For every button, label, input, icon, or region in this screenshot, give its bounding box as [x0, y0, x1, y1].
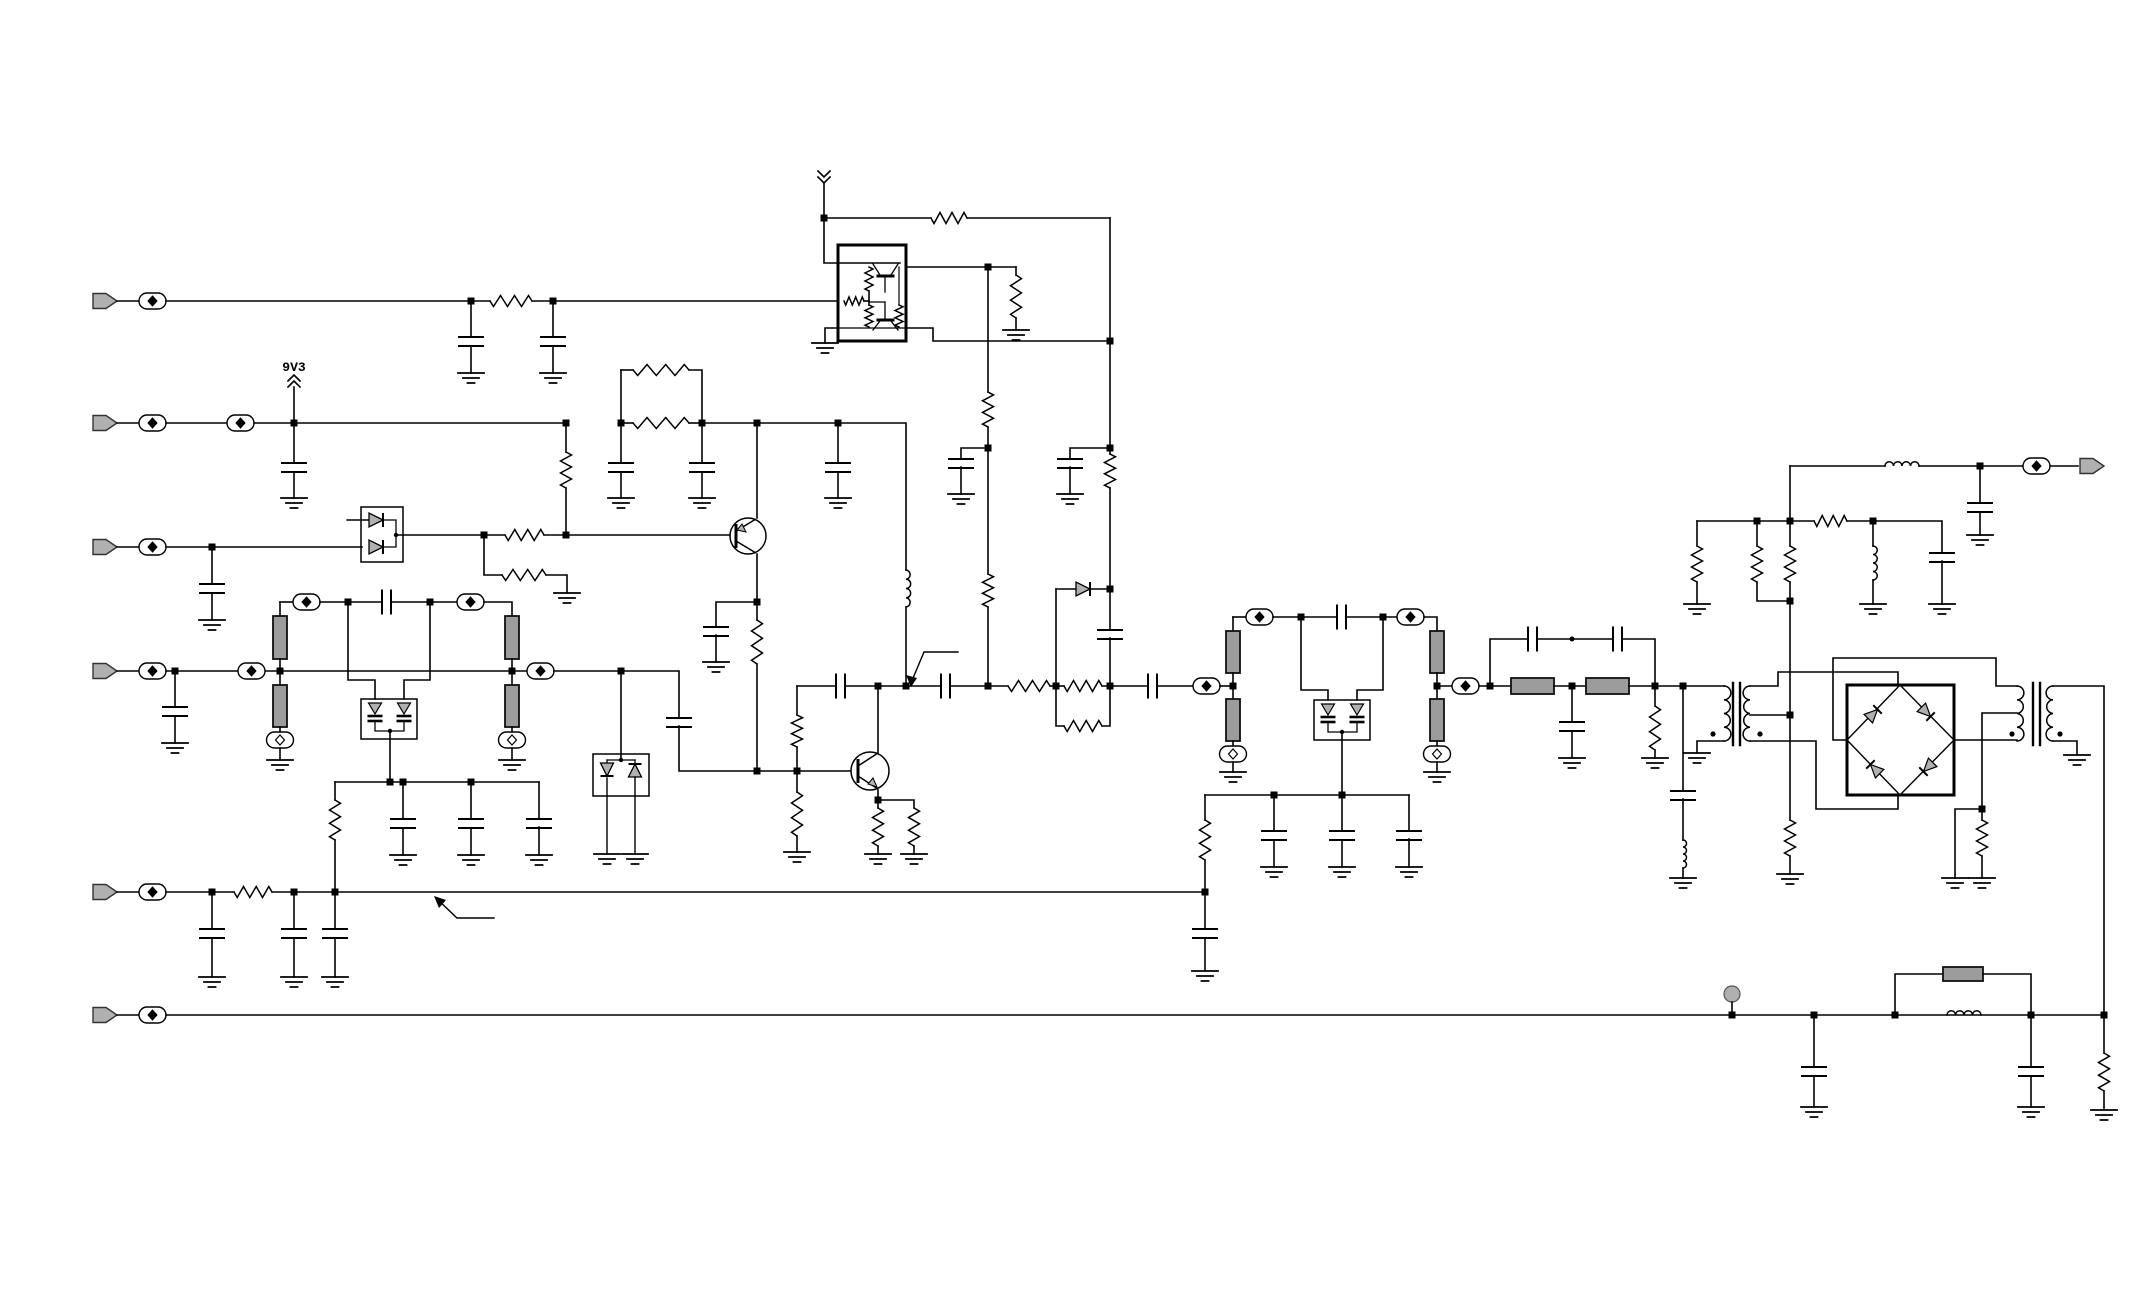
ferrite bead FB13 — [1246, 609, 1273, 625]
wire — [845, 685, 878, 687]
wire — [565, 423, 567, 452]
wire — [987, 448, 989, 574]
wire — [470, 782, 472, 819]
resistor R36 — [1692, 546, 1703, 582]
wire — [620, 671, 622, 760]
ground — [526, 855, 552, 865]
ferrite bead FB14 — [1397, 609, 1424, 625]
capacitor C36 — [2019, 1067, 2043, 1076]
wire — [1424, 617, 1437, 631]
resistor R11 — [561, 452, 572, 488]
wire — [756, 423, 758, 518]
wire — [293, 892, 295, 929]
resistor R29 — [1200, 820, 1211, 860]
wire — [1697, 520, 1814, 522]
wire — [715, 635, 717, 662]
wire — [1408, 795, 1410, 831]
junction — [1434, 683, 1441, 690]
wire — [1341, 732, 1343, 795]
junction — [277, 668, 284, 675]
wire — [552, 301, 554, 337]
wire — [689, 370, 702, 423]
wire — [1872, 580, 1874, 604]
ground — [689, 498, 715, 508]
junction — [821, 215, 828, 222]
capacitor C9 — [826, 463, 850, 472]
wire — [211, 547, 213, 584]
wire — [334, 938, 336, 977]
resistor R32 — [1650, 706, 1661, 750]
wire — [166, 670, 280, 672]
wire — [702, 423, 906, 570]
wire — [1436, 741, 1438, 747]
transistor U1 internal Q bottom — [878, 319, 893, 322]
wire — [484, 534, 505, 536]
capacitor C17 — [667, 718, 691, 727]
wire — [1622, 639, 1655, 686]
wire — [272, 891, 1205, 893]
connector J6 — [93, 1008, 117, 1023]
resistor R34 — [1785, 820, 1796, 856]
wire — [2053, 686, 2104, 1015]
wire — [470, 346, 472, 373]
wire — [1872, 521, 1874, 546]
wire — [280, 670, 512, 672]
diode D1 — [1076, 582, 1090, 596]
resistor R38 — [1977, 820, 1988, 856]
wire — [1789, 856, 1791, 874]
wire — [565, 488, 567, 535]
wire — [1789, 582, 1791, 601]
wire — [1109, 341, 1111, 448]
wire — [607, 759, 635, 761]
wire — [987, 267, 989, 392]
resistor R23 — [1064, 681, 1102, 692]
wire — [756, 602, 758, 620]
varactor D6 — [1321, 704, 1336, 722]
wire — [823, 183, 825, 218]
wire — [1273, 840, 1275, 867]
wire — [348, 602, 375, 699]
junction — [1754, 518, 1761, 525]
junction — [1652, 683, 1659, 690]
capacitor C14 — [459, 819, 483, 828]
wire — [484, 602, 512, 616]
annotation arrow 2 — [437, 899, 494, 918]
wire — [620, 423, 622, 463]
wire — [1813, 1076, 1815, 1107]
wire — [877, 686, 879, 753]
ground — [784, 852, 810, 862]
transformer T1 primary — [1724, 686, 1731, 741]
wire — [621, 369, 633, 371]
wire — [404, 602, 430, 699]
wire — [960, 467, 962, 494]
ground — [1777, 874, 1803, 884]
junction — [618, 668, 625, 675]
ground — [390, 855, 416, 865]
resistor R41 — [2099, 1053, 2110, 1091]
wire — [1895, 974, 1943, 1015]
junction — [1977, 463, 1984, 470]
wire — [906, 266, 1016, 268]
wire — [347, 519, 369, 521]
wire — [701, 423, 703, 463]
junction — [754, 420, 761, 427]
wire — [1731, 1002, 1733, 1015]
junction — [1230, 683, 1237, 690]
ferrite bead FB8 (hollow) — [499, 732, 526, 748]
wire — [552, 346, 554, 373]
wire — [840, 327, 904, 329]
wire — [2053, 741, 2077, 755]
transformer T2 primary — [2017, 686, 2024, 741]
wire — [796, 836, 798, 852]
wire — [877, 846, 879, 854]
wire — [824, 218, 838, 263]
junction — [1569, 683, 1576, 690]
resistor R40 (smd) — [1943, 967, 1983, 981]
ferrite bead FB2 — [139, 415, 166, 431]
junction — [1680, 683, 1687, 690]
wire — [280, 601, 293, 603]
inductor L4 — [1885, 462, 1919, 466]
capacitor C28 — [1671, 791, 1695, 800]
wire — [1204, 860, 1206, 891]
diode ring diamond — [1847, 685, 1954, 795]
wire — [634, 777, 636, 854]
wire — [538, 782, 540, 819]
wire — [117, 1014, 139, 1016]
wire — [334, 840, 336, 892]
wire — [1750, 672, 1898, 686]
wire — [254, 422, 566, 424]
wire — [1982, 713, 2017, 809]
ferrite bead FB6 — [457, 594, 484, 610]
annotation arrow — [911, 652, 958, 683]
wire — [211, 593, 213, 620]
wire — [1537, 638, 1613, 640]
capacitor C2 — [541, 337, 565, 346]
diode U2b — [369, 540, 383, 554]
ferrite bead FB4 — [139, 539, 166, 555]
junction — [875, 683, 882, 690]
wire — [389, 731, 391, 782]
wire — [1919, 465, 2078, 467]
ferrite bead FB9 — [139, 663, 166, 679]
wire — [1981, 809, 1983, 820]
diode D5 — [629, 764, 642, 777]
ferrite bead FB1 — [139, 293, 166, 309]
junction — [1107, 683, 1114, 690]
resistor R26 (smd) — [1226, 699, 1240, 741]
capacitor C32 — [282, 929, 306, 938]
power 9V3 arrow — [288, 375, 300, 387]
resistor R39 — [234, 887, 272, 898]
wire — [166, 546, 362, 548]
ground — [1684, 604, 1710, 614]
ferrite bead FB7 (hollow) — [267, 732, 294, 748]
resistor R4 — [1105, 454, 1116, 488]
ground — [1967, 535, 1993, 545]
ground — [1192, 971, 1218, 981]
junction — [985, 264, 992, 271]
ferrite bead FB18 — [2023, 458, 2050, 474]
junction — [1487, 683, 1494, 690]
wire — [1954, 739, 2017, 741]
junction — [468, 298, 475, 305]
inductor L1 — [906, 570, 911, 607]
power arrow (down chevrons) — [818, 171, 830, 183]
junction — [1271, 792, 1278, 799]
wire — [877, 800, 879, 808]
wire — [546, 575, 567, 593]
junction — [481, 532, 488, 539]
wire — [634, 760, 636, 764]
wire — [293, 387, 295, 423]
wire — [1301, 617, 1328, 700]
via (gray dot) — [1724, 986, 1740, 1002]
junction — [1202, 889, 1209, 896]
wire — [1273, 795, 1275, 831]
ground — [554, 593, 580, 603]
wire — [905, 607, 907, 686]
junction — [1380, 614, 1387, 621]
junction — [1787, 712, 1794, 719]
ground — [622, 854, 648, 864]
wire — [869, 301, 885, 303]
resistor R17 — [330, 800, 341, 840]
wire — [2103, 1091, 2105, 1110]
wire — [878, 685, 941, 687]
junction — [754, 599, 761, 606]
junction — [985, 683, 992, 690]
ground — [2018, 1107, 2044, 1117]
resistor R30 (smd) — [1511, 678, 1554, 694]
ground — [199, 620, 225, 630]
wire — [293, 423, 295, 463]
wire — [1346, 616, 1410, 618]
capacitor C20 — [1148, 675, 1157, 698]
resistor R12 — [752, 620, 763, 664]
capacitor C8 — [690, 463, 714, 472]
connector J5 — [93, 885, 117, 900]
phase dot — [1757, 731, 1762, 736]
wire — [1050, 685, 1064, 687]
inductor L5 — [1947, 1011, 1981, 1015]
resistor U1 internal R3 — [865, 305, 873, 327]
wire — [511, 659, 513, 685]
junction — [332, 889, 339, 896]
wire — [391, 601, 457, 603]
diode D9 ring BL — [1866, 760, 1884, 778]
node varactor join — [388, 729, 392, 733]
wire — [1070, 448, 1110, 459]
ferrite bead FB11 — [527, 663, 554, 679]
ground — [1969, 878, 1995, 888]
junction — [468, 779, 475, 786]
wire — [987, 427, 989, 448]
capacitor C22 — [1262, 831, 1286, 840]
wire — [1015, 267, 1017, 275]
wire — [211, 938, 213, 977]
ground — [1801, 1107, 1827, 1117]
wire — [174, 671, 176, 707]
phase dot — [2057, 731, 2062, 736]
node bypass — [1570, 637, 1575, 642]
wire — [716, 602, 757, 627]
wire — [511, 748, 513, 760]
wire — [796, 771, 798, 792]
wire — [1696, 521, 1698, 546]
wire — [1757, 582, 1790, 601]
wire — [1789, 466, 1791, 521]
wire — [1789, 601, 1791, 715]
resistor R22 — [1008, 681, 1050, 692]
capacitor C6 — [282, 463, 306, 472]
junction — [903, 683, 910, 690]
ferrite bead FB15 (hollow) — [1220, 746, 1247, 762]
resistor U1 internal R — [865, 267, 873, 291]
wire — [1790, 465, 1885, 467]
junction — [1107, 586, 1114, 593]
wire — [877, 790, 879, 800]
wire — [987, 607, 989, 686]
resistor R1 — [490, 296, 532, 307]
resistor R5 — [983, 392, 994, 427]
wire — [1109, 589, 1111, 630]
wire — [606, 778, 608, 854]
wire — [1436, 762, 1438, 772]
wire — [2030, 1076, 2032, 1107]
junction — [1811, 1012, 1818, 1019]
wire — [825, 328, 838, 343]
wire — [1981, 856, 1983, 878]
ground — [1942, 878, 1968, 888]
capacitor C3 — [1058, 459, 1082, 468]
varactor box U3 — [361, 699, 417, 739]
ferrite bead FB17 — [1452, 678, 1479, 694]
junction — [400, 779, 407, 786]
wire — [1682, 799, 1684, 840]
resistor R9 — [505, 530, 544, 541]
junction — [563, 532, 570, 539]
wire — [1683, 685, 1724, 687]
wire — [837, 472, 839, 498]
capacitor C7 — [609, 463, 633, 472]
transformer T1 secondary — [1743, 686, 1750, 741]
transformer T2 secondary — [2046, 686, 2053, 741]
junction — [835, 420, 842, 427]
capacitor C24 — [1397, 831, 1421, 840]
junction — [1107, 338, 1114, 345]
wire — [1204, 938, 1206, 971]
wire — [511, 727, 513, 732]
capacitor C25 — [1528, 628, 1537, 651]
wire — [1955, 809, 1982, 878]
ferrite bead FB10 — [238, 663, 265, 679]
IC U1 — [838, 245, 906, 341]
resistor U1 internal R4 — [895, 305, 903, 327]
diode D8 ring BR — [1919, 758, 1937, 776]
resistor U1 internal R2 — [844, 297, 864, 305]
capacitor C23 — [1330, 831, 1354, 840]
ground — [2064, 755, 2090, 765]
capacitor C11 — [704, 627, 728, 636]
wire — [117, 891, 139, 893]
wire — [1109, 218, 1111, 341]
wire — [1750, 741, 1898, 809]
wire — [824, 217, 931, 219]
junction — [985, 445, 992, 452]
wire — [961, 448, 988, 459]
junction — [1339, 792, 1346, 799]
resistor R33 — [1785, 546, 1796, 582]
wire — [757, 770, 852, 772]
wire — [1056, 588, 1076, 590]
wire — [293, 472, 295, 498]
connector J3 — [93, 540, 117, 555]
wire — [166, 422, 227, 424]
junction — [699, 420, 706, 427]
wire — [1654, 686, 1656, 706]
capacitor C12 — [382, 591, 391, 614]
ground — [825, 498, 851, 508]
capacitor C18 — [836, 675, 845, 698]
wire — [1204, 795, 1206, 820]
wire — [166, 300, 471, 302]
wire — [279, 659, 281, 685]
transistor U1 internal Q top — [878, 275, 893, 278]
wire — [117, 546, 139, 548]
junction — [291, 420, 298, 427]
wire — [1682, 686, 1684, 791]
wire — [1437, 685, 1452, 687]
junction — [550, 298, 557, 305]
wire — [471, 300, 490, 302]
wire — [566, 534, 730, 536]
wire — [864, 300, 869, 302]
wire — [1205, 794, 1409, 796]
ground — [1929, 604, 1955, 614]
junction — [1729, 1012, 1736, 1019]
wire — [1232, 617, 1234, 631]
junction — [509, 668, 516, 675]
wire — [335, 781, 539, 783]
wire — [334, 892, 336, 929]
ground — [162, 743, 188, 753]
resistor R14 (smd) — [273, 685, 287, 727]
wire — [1109, 488, 1111, 589]
wire — [279, 602, 281, 616]
wire — [756, 554, 758, 602]
ground — [1642, 758, 1668, 768]
resistor R21 — [909, 808, 920, 846]
wire — [1833, 658, 2017, 740]
wire — [166, 1014, 2104, 1016]
ground — [703, 662, 729, 672]
wire — [1056, 686, 1064, 726]
wire — [1813, 1015, 1815, 1067]
ground — [1670, 878, 1696, 888]
phase dot — [1710, 731, 1715, 736]
varactor box U5 — [1314, 700, 1370, 740]
connector J2 — [93, 416, 117, 431]
wire — [606, 760, 608, 763]
wire — [1015, 318, 1017, 330]
diode ring box — [1847, 685, 1954, 795]
wire — [1654, 750, 1656, 758]
